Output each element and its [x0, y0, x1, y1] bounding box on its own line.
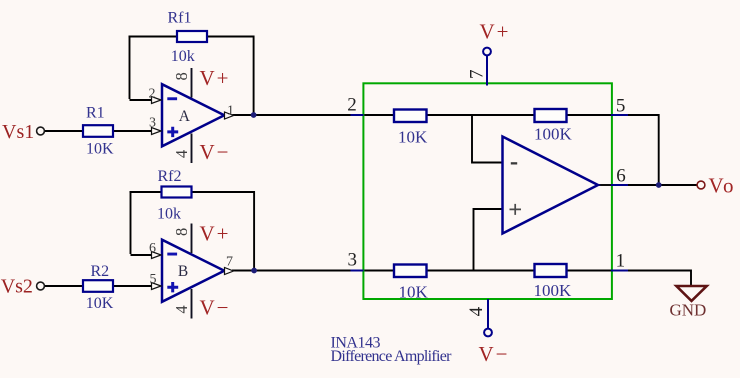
op-amp B pin7 arrow	[225, 268, 234, 275]
svg-text:2: 2	[347, 95, 357, 116]
svg-text:V−: V−	[479, 342, 510, 366]
wire GND drop	[690, 270, 692, 287]
svg-text:4: 4	[172, 305, 191, 313]
wire feedback B top right	[191, 191, 255, 193]
svg-text:100K: 100K	[534, 125, 573, 144]
svg-text:Rf2: Rf2	[158, 168, 182, 185]
op-amp B V- supply pin 4	[191, 289, 193, 319]
op-amp A plus symbol	[167, 127, 178, 137]
wire feedback A left vertical	[129, 37, 131, 100]
resistor 100K bottom inside INA	[535, 264, 567, 277]
wire opamp A output to INA pin2	[232, 114, 352, 116]
svg-text:8: 8	[172, 72, 191, 80]
svg-text:10k: 10k	[157, 206, 181, 223]
wire 10K top to 100K top	[426, 114, 535, 116]
wire feedback corner down to output node	[658, 114, 660, 185]
resistor 10K bottom inside INA	[394, 265, 427, 278]
INA pin 4 stub vertical	[487, 299, 489, 328]
svg-text:Vs2: Vs2	[1, 276, 33, 298]
wire Vs2 to R2	[45, 285, 84, 287]
svg-text:Difference Amplifier: Difference Amplifier	[331, 348, 453, 365]
junction dot node A out	[251, 112, 257, 118]
resistor 100K top inside INA	[535, 109, 567, 122]
svg-text:4: 4	[466, 306, 487, 316]
INA143 part body green box	[363, 83, 612, 299]
resistor Rf1	[177, 31, 207, 42]
svg-text:B: B	[178, 263, 188, 280]
svg-text:3: 3	[348, 250, 358, 271]
op-amp A V- supply pin 4	[191, 134, 193, 164]
wire feedback B right vertical	[253, 191, 255, 271]
wire R2 to opamp B pin5	[113, 285, 153, 287]
wire internal opamp output to pin6	[597, 184, 612, 186]
internal op-amp U1 triangle	[503, 137, 599, 234]
svg-text:V−: V−	[200, 296, 231, 320]
svg-text:R1: R1	[86, 104, 105, 121]
wire feedback A top left	[129, 36, 178, 38]
op-amp A pin3 arrow	[152, 128, 162, 135]
svg-text:V−: V−	[200, 140, 231, 164]
junction dot node Vo	[656, 182, 662, 188]
wire pin1 to GND corner	[626, 270, 691, 272]
op-amp A pin1 arrow	[225, 112, 234, 119]
op-amp A V+ supply pin 8	[191, 68, 193, 98]
svg-text:V+: V+	[480, 20, 511, 44]
op-amp A triangle	[162, 84, 224, 146]
wire INA pin2 to 10K top	[363, 114, 395, 116]
INA pin 6 stub	[611, 184, 628, 186]
wire feedback A right vertical	[253, 36, 255, 116]
op-amp A minus symbol	[167, 97, 177, 100]
svg-text:10K: 10K	[86, 295, 114, 312]
resistor 10K top inside INA	[394, 110, 427, 123]
wire feedback B left horizontal to pin6	[131, 254, 153, 256]
ground symbol GND	[676, 286, 706, 301]
wire branch to internal opamp non-inverting input	[474, 209, 503, 271]
wire pin5 to feedback corner	[626, 114, 659, 116]
svg-text:6: 6	[616, 165, 626, 186]
svg-text:A: A	[179, 108, 191, 125]
wire 100K bottom to INA pin1	[566, 270, 612, 272]
wire Vs1 to R1	[45, 130, 84, 132]
svg-text:6: 6	[149, 241, 156, 256]
wire feedback B left vertical	[130, 192, 132, 254]
svg-text:V+: V+	[200, 66, 231, 90]
op-amp B pin5 arrow	[152, 283, 162, 290]
port Vs1 terminal circle	[37, 127, 45, 135]
svg-text:Vo: Vo	[709, 174, 736, 198]
svg-text:100K: 100K	[534, 281, 573, 300]
resistor R2	[83, 280, 113, 292]
internal op-amp plus symbol	[510, 204, 522, 215]
svg-text:V+: V+	[200, 222, 231, 246]
INA pin 7 stub vertical	[486, 56, 488, 86]
op-amp B V+ supply pin 8	[191, 224, 193, 254]
wire pin6 to Vo	[626, 184, 698, 186]
resistor Rf2	[162, 187, 192, 198]
op-amp B pin6 arrow	[152, 252, 162, 259]
svg-text:10k: 10k	[171, 48, 195, 65]
wire feedback B top left	[130, 191, 162, 193]
wire INA pin3 to 10K bottom	[363, 270, 395, 272]
internal op-amp minus symbol	[511, 162, 517, 164]
junction dot node B out	[251, 268, 257, 274]
svg-text:7: 7	[466, 69, 487, 79]
svg-text:3: 3	[149, 116, 156, 131]
op-amp B triangle	[162, 240, 224, 302]
op-amp B minus symbol	[167, 253, 177, 256]
wire feedback A top right	[207, 36, 255, 38]
wire R1 to opamp A pin3	[113, 130, 153, 132]
resistor R1	[83, 125, 113, 137]
svg-text:Rf1: Rf1	[168, 9, 192, 26]
svg-text:4: 4	[172, 150, 191, 158]
power terminal circle V-	[484, 329, 492, 337]
svg-text:5: 5	[150, 272, 157, 287]
wire branch to internal opamp inverting input	[472, 115, 503, 163]
svg-text:R2: R2	[91, 263, 110, 280]
port Vo terminal circle	[697, 181, 705, 189]
wire 10K bottom to 100K bottom	[426, 270, 535, 272]
svg-text:1: 1	[616, 251, 626, 272]
svg-text:10K: 10K	[398, 128, 428, 147]
svg-text:GND: GND	[670, 300, 707, 319]
svg-text:2: 2	[149, 87, 156, 102]
wire 100K top to INA pin5	[566, 114, 612, 116]
op-amp A pin2 arrow	[152, 97, 162, 104]
INA pin 5 stub	[611, 114, 628, 116]
svg-text:8: 8	[172, 228, 191, 236]
svg-text:10K: 10K	[86, 140, 114, 157]
svg-text:10K: 10K	[399, 283, 429, 302]
wire opamp B output to INA pin3	[232, 270, 352, 272]
INA pin 3 stub	[351, 270, 364, 272]
op-amp B plus symbol	[167, 282, 178, 292]
INA pin 2 stub	[351, 114, 364, 116]
svg-text:7: 7	[226, 255, 233, 270]
svg-text:Vs1: Vs1	[2, 121, 34, 143]
svg-text:1: 1	[227, 104, 234, 119]
svg-text:5: 5	[616, 95, 626, 116]
power terminal circle V+	[483, 48, 491, 56]
INA pin 1 stub	[611, 270, 628, 272]
wire feedback A left horizontal to pin2	[130, 99, 153, 101]
port Vs2 terminal circle	[37, 282, 45, 290]
